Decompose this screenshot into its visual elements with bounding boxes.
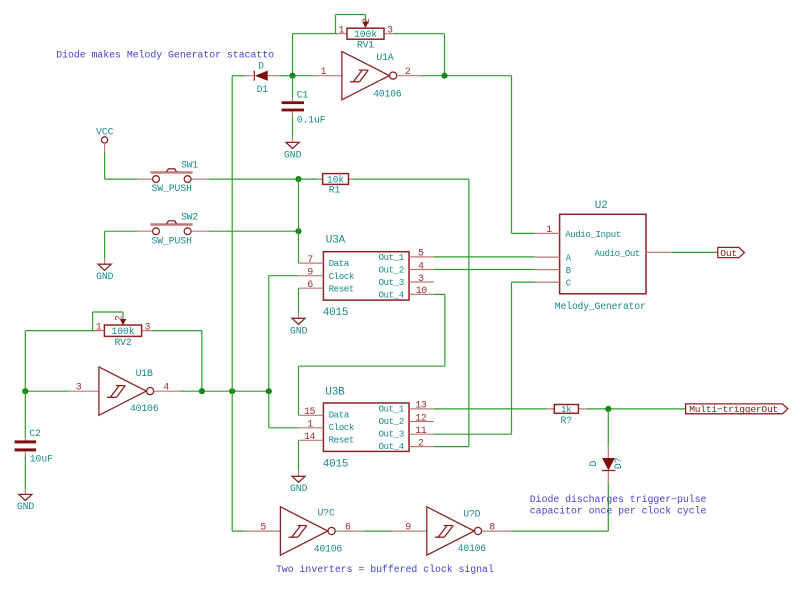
junction I (608.3,408.9) — [605, 406, 611, 412]
wire U1B output row — [180, 390, 269, 392]
svg-text:GND: GND — [284, 149, 302, 160]
svg-text:Out_3: Out_3 — [378, 277, 403, 288]
wire C1 to ground — [292, 116, 294, 137]
svg-text:R1: R1 — [329, 184, 341, 195]
svg-text:2: 2 — [114, 315, 125, 321]
svg-text:40106: 40106 — [373, 89, 402, 100]
switch SW2 — [137, 212, 209, 247]
svg-text:GND: GND — [290, 325, 308, 336]
svg-text:100k: 100k — [354, 29, 377, 40]
pin 14 Reset — [299, 439, 324, 441]
svg-text:Audio_Input: Audio_Input — [565, 229, 621, 240]
svg-text:RV2: RV2 — [114, 337, 131, 348]
pin 11 Out_3 — [409, 433, 434, 435]
wire D? to U?D output — [511, 482, 609, 531]
svg-text:Two inverters = buffered clock: Two inverters = buffered clock signal — [276, 564, 494, 575]
op-amp U1B (40106 schmitt inverter) — [69, 367, 180, 415]
pin Audio_Out — [646, 251, 671, 253]
diode D1 — [245, 61, 280, 95]
svg-text:4: 4 — [418, 261, 424, 272]
svg-text:8: 8 — [489, 522, 495, 533]
svg-text:Data: Data — [329, 258, 350, 269]
svg-text:U?D: U?D — [463, 509, 480, 520]
junction H (268.8,391.2) — [266, 388, 272, 394]
pin 12 Out_2 — [409, 421, 434, 423]
wire SW1 to node — [209, 178, 299, 180]
svg-text:40106: 40106 — [458, 543, 487, 554]
svg-text:U1B: U1B — [136, 368, 153, 379]
svg-text:SW1: SW1 — [181, 160, 198, 171]
svg-text:Out_1: Out_1 — [378, 403, 404, 414]
svg-text:Reset: Reset — [329, 435, 354, 446]
op-amp U1A (40106 schmitt inverter) — [313, 51, 420, 99]
svg-text:40106: 40106 — [314, 543, 343, 554]
svg-text:Out_2: Out_2 — [378, 416, 403, 427]
svg-text:capacitor once per clock cycle: capacitor once per clock cycle — [530, 506, 707, 517]
wire RV1 pin3 to U1A output node — [394, 34, 445, 76]
svg-text:U1A: U1A — [376, 52, 393, 63]
svg-text:5: 5 — [418, 249, 424, 260]
svg-text:U3A: U3A — [326, 235, 346, 247]
svg-text:Multi−triggerOut: Multi−triggerOut — [689, 404, 778, 415]
svg-text:10uF: 10uF — [30, 453, 53, 464]
svg-text:3: 3 — [387, 26, 393, 37]
svg-text:D: D — [588, 460, 599, 466]
pin 1 Audio_Input — [535, 232, 559, 234]
svg-text:1: 1 — [96, 323, 102, 334]
svg-text:Audio_Out: Audio_Out — [594, 248, 640, 259]
svg-text:R?: R? — [561, 415, 573, 426]
capacitor C2 — [15, 391, 53, 464]
svg-text:1: 1 — [546, 225, 552, 236]
svg-text:RV1: RV1 — [357, 40, 374, 51]
svg-text:3: 3 — [418, 274, 424, 285]
wire U3B Reset to ground — [298, 440, 300, 471]
svg-text:SW_PUSH: SW_PUSH — [152, 183, 193, 194]
junction F (201.9,391.2) — [199, 388, 205, 394]
svg-text:Out_4: Out_4 — [378, 441, 404, 452]
svg-text:D: D — [258, 61, 264, 72]
ground under U3B reset — [290, 471, 308, 494]
wire C2 to ground — [24, 456, 26, 489]
svg-text:Melody_Generator: Melody_Generator — [555, 301, 646, 312]
pin 6 Reset — [299, 287, 324, 289]
wire node C down to U3A Data — [298, 179, 300, 263]
diode D? — [588, 446, 624, 483]
wire U1A input — [293, 75, 314, 77]
svg-text:1k: 1k — [561, 405, 572, 415]
resistor R? — [547, 405, 588, 426]
pin 9 Clock — [299, 275, 324, 277]
svg-text:4: 4 — [163, 382, 169, 393]
svg-text:4015: 4015 — [323, 307, 349, 319]
wire U1B input from left rail — [25, 390, 69, 392]
svg-text:9: 9 — [307, 268, 313, 279]
svg-text:Clock: Clock — [329, 422, 355, 433]
pin 13 Out_1 — [409, 408, 434, 410]
svg-text:1: 1 — [320, 67, 326, 78]
hierarchical label Multi-triggerOut — [686, 404, 788, 415]
svg-text:2: 2 — [362, 18, 373, 24]
pin A — [535, 256, 559, 258]
melody generator U2 — [535, 200, 671, 312]
power flag VCC — [96, 126, 114, 152]
junction C (298.5,179.1) — [295, 176, 301, 182]
svg-text:6: 6 — [307, 280, 313, 291]
svg-text:C1: C1 — [297, 89, 309, 100]
wire U3B Out_1 to R? — [434, 408, 547, 410]
wire RV1 feedback top U — [336, 15, 366, 34]
wire SW2 to node — [209, 230, 299, 232]
wire U1A output to feedback node and U2 — [420, 76, 535, 234]
wire U3A Out_2 to U2 B — [434, 269, 536, 271]
wire D1 cathode to vertical bus — [232, 75, 245, 77]
svg-text:13: 13 — [415, 401, 427, 412]
wire RV2 pin1 to left rail — [25, 331, 95, 392]
wire D1 anode to junction A — [280, 75, 293, 77]
wire U3A Out_1 to U2 A — [434, 256, 536, 258]
svg-text:Out_2: Out_2 — [378, 265, 403, 276]
wire D1 bus vertical — [232, 76, 244, 531]
op-amp U?C (40106 schmitt inverter) — [245, 507, 365, 555]
svg-text:GND: GND — [96, 271, 114, 282]
svg-text:U2: U2 — [595, 200, 608, 212]
wire RV2 pin3 down to output row — [152, 331, 202, 392]
capacitor C1 — [282, 89, 326, 125]
junction A (292.5,75.7) — [289, 73, 295, 79]
svg-text:Data: Data — [329, 410, 350, 421]
svg-text:2: 2 — [405, 67, 411, 78]
pin 7 Data — [299, 262, 324, 264]
wire U?C out to U?D in — [365, 530, 392, 532]
wire U2 C from U3B Out_3 — [434, 282, 536, 434]
svg-text:SW_PUSH: SW_PUSH — [152, 235, 193, 246]
op-amp U?D (40106 schmitt inverter) — [392, 507, 511, 555]
potentiometer RV1 — [338, 18, 395, 51]
svg-text:12: 12 — [415, 413, 427, 424]
junction E (25.3,391.2) — [22, 388, 28, 394]
svg-text:GND: GND — [290, 483, 308, 494]
svg-text:U?C: U?C — [318, 508, 335, 519]
ground under C1 — [284, 137, 302, 160]
ground under U3A reset — [290, 313, 308, 336]
pin 1 Clock — [299, 427, 324, 429]
svg-text:3: 3 — [76, 382, 82, 393]
svg-text:1: 1 — [307, 420, 313, 431]
svg-text:SW2: SW2 — [181, 212, 198, 223]
svg-text:40106: 40106 — [130, 403, 159, 414]
svg-text:9: 9 — [405, 522, 411, 533]
pin 4 Out_2 — [409, 269, 434, 271]
wire Audio_Out to flag — [671, 251, 718, 253]
wire R? to flag node — [587, 408, 686, 410]
junction B (444.5,75.7) — [441, 73, 447, 79]
wire SW2 left to ground — [105, 231, 137, 259]
shift register U3B (4015) — [299, 386, 434, 470]
svg-text:1: 1 — [338, 26, 344, 37]
pin 15 Data — [299, 414, 324, 416]
ground under SW2 — [96, 259, 114, 282]
svg-text:0.1uF: 0.1uF — [297, 115, 326, 126]
wire VCC to SW1 — [105, 152, 137, 179]
wire U3A Clock from clock bus — [269, 276, 299, 428]
svg-text:10: 10 — [416, 286, 428, 297]
hierarchical label Out — [718, 247, 745, 259]
svg-text:Clock: Clock — [329, 271, 355, 282]
wire C1 top — [292, 76, 294, 97]
svg-text:Reset: Reset — [329, 283, 354, 294]
svg-text:14: 14 — [304, 432, 316, 443]
svg-text:VCC: VCC — [96, 126, 114, 137]
pin 3 Out_3 — [409, 281, 434, 283]
pin 10 Out_4 — [409, 293, 434, 295]
svg-text:GND: GND — [17, 501, 35, 512]
junction G (232.2,391.2) — [229, 388, 235, 394]
shift register U3A (4015) — [299, 235, 434, 320]
wire node to diode D? — [607, 409, 609, 446]
svg-text:6: 6 — [345, 522, 351, 533]
svg-text:4015: 4015 — [323, 458, 349, 470]
potentiometer RV2 — [95, 315, 152, 348]
wire R1 to U3B Out_4 — [353, 179, 469, 447]
resistor R1 — [299, 174, 354, 196]
svg-text:3: 3 — [145, 323, 151, 334]
wire RV1 pin1 to junction A — [293, 34, 338, 76]
pin 2 Out_4 — [409, 446, 434, 448]
svg-text:C2: C2 — [29, 428, 41, 439]
svg-text:15: 15 — [304, 407, 316, 418]
ground under C2 — [17, 489, 35, 512]
svg-text:D?: D? — [613, 457, 624, 469]
junction D (298.5,231.2) — [295, 228, 301, 234]
svg-text:5: 5 — [260, 522, 266, 533]
svg-text:D1: D1 — [257, 84, 269, 95]
wire U3A Reset to ground — [298, 288, 300, 313]
switch SW1 — [137, 160, 209, 195]
svg-text:U3B: U3B — [325, 386, 345, 398]
svg-text:Out: Out — [720, 248, 737, 259]
svg-text:Out_1: Out_1 — [378, 252, 404, 263]
pin 5 Out_1 — [409, 256, 434, 258]
svg-text:100k: 100k — [111, 326, 134, 337]
svg-text:Diode discharges trigger−pulse: Diode discharges trigger−pulse — [530, 494, 707, 505]
svg-text:7: 7 — [307, 255, 313, 266]
pin C — [535, 281, 559, 283]
pin B — [535, 269, 559, 271]
svg-text:2: 2 — [418, 438, 424, 449]
svg-text:Out_3: Out_3 — [378, 428, 403, 439]
svg-text:Out_4: Out_4 — [378, 290, 404, 301]
svg-text:11: 11 — [415, 426, 427, 437]
wire RV2 feedback top U — [93, 312, 123, 331]
svg-text:Diode makes Melody Generator s: Diode makes Melody Generator stacatto — [56, 50, 274, 61]
wire U3A Out_4 to U3B Data — [299, 294, 445, 415]
